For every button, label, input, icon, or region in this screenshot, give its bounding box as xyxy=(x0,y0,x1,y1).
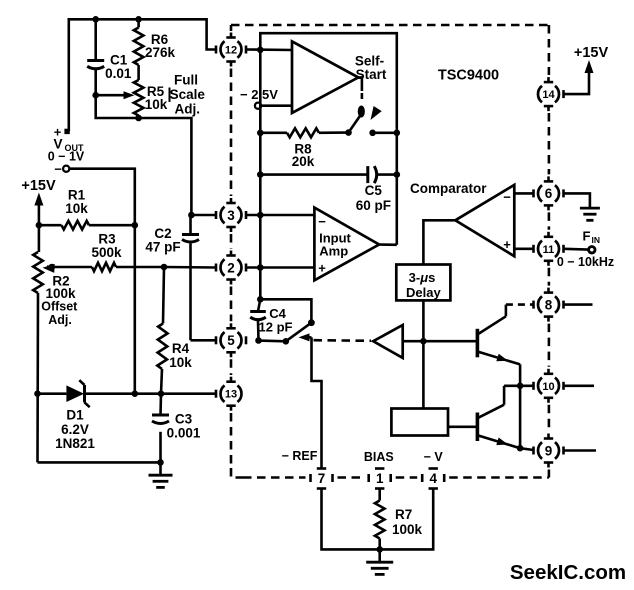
wire stub right of pin 8 xyxy=(564,303,593,306)
wiper wire of R5 xyxy=(96,91,135,99)
junction node +15V R1 R2 xyxy=(36,222,43,229)
ground below C3 xyxy=(149,462,173,487)
wire dashed switch to buffer xyxy=(314,339,372,342)
op-amp U2 input amp xyxy=(314,208,379,281)
IC box right edge seg5 xyxy=(548,324,551,367)
switch at pin 5 xyxy=(259,319,315,344)
power +15V left xyxy=(21,178,56,225)
ground below R7 xyxy=(366,549,393,574)
label -V xyxy=(424,450,444,464)
wire C4 junction branch to switch pivot xyxy=(260,299,311,321)
wire switch to rail xyxy=(373,132,397,135)
wire comparator out to delay xyxy=(423,220,455,264)
capacitor C1 xyxy=(87,19,132,95)
svg-text:1: 1 xyxy=(376,471,384,486)
IC box right edge seg2 xyxy=(548,113,551,174)
svg-text:10: 10 xyxy=(542,381,554,393)
wire stub right of pin 10 xyxy=(564,384,595,387)
IC box bottom edge seg2 xyxy=(338,476,364,479)
svg-text:12 pF: 12 pF xyxy=(259,320,293,335)
junction node R3 R4 pin2 xyxy=(161,264,168,271)
svg-text:R4: R4 xyxy=(172,341,190,356)
pin 1 xyxy=(369,469,391,489)
svg-text:276k: 276k xyxy=(145,45,176,60)
capacitor C2 xyxy=(145,215,199,340)
pin 9 xyxy=(534,434,564,468)
junction node C1 top xyxy=(92,16,99,23)
wire emitters to pin 9 xyxy=(520,448,533,450)
wire pin 7 down xyxy=(322,489,378,550)
svg-text:13: 13 xyxy=(225,389,237,401)
wire C2 bottom to pin 5 xyxy=(191,339,217,342)
svg-text:0.001: 0.001 xyxy=(167,426,201,441)
junction node C4 bottom pin5 row xyxy=(255,337,262,344)
label Vout xyxy=(48,137,85,164)
svg-text:5: 5 xyxy=(227,333,235,348)
svg-text:10k: 10k xyxy=(145,97,168,112)
pin 10 xyxy=(534,369,564,403)
pin 6 xyxy=(534,176,564,210)
svg-text:C3: C3 xyxy=(175,412,193,427)
junction node center xyxy=(420,338,427,345)
svg-text:IN: IN xyxy=(592,235,601,245)
svg-text:3-μs: 3-μs xyxy=(409,270,436,285)
comparator U3 xyxy=(455,185,514,256)
terminal Vout plus xyxy=(54,125,70,140)
IC box bottom edge seg1 xyxy=(243,476,306,479)
pin 12 xyxy=(216,33,246,67)
resistor R4 xyxy=(157,267,192,394)
junction node rail R8 left xyxy=(257,130,264,137)
IC box top edge xyxy=(231,24,549,27)
wire R1 node down to D1 row xyxy=(134,225,137,394)
pin 11 xyxy=(534,232,564,266)
svg-text:20k: 20k xyxy=(292,154,315,169)
junction node C1 bottom xyxy=(92,92,99,99)
pin 5 xyxy=(216,323,246,357)
svg-text:+: + xyxy=(318,261,326,276)
IC box bottom-left corner xyxy=(231,468,243,478)
svg-text:10k: 10k xyxy=(65,201,88,216)
IC box left edge seg1 xyxy=(230,25,233,31)
transistor Q1 xyxy=(477,305,520,365)
svg-text:+: + xyxy=(503,237,511,252)
zener diode D1 xyxy=(38,380,135,451)
junction node pin2 rail xyxy=(257,264,264,271)
capacitor C3 xyxy=(152,394,201,463)
junction node C4 top xyxy=(257,296,264,303)
wire D1 row to pin 13 xyxy=(135,392,216,395)
resistor R1 xyxy=(39,188,135,230)
junction node D1 row center xyxy=(132,390,139,397)
wire Q2 collector to pin 10 xyxy=(504,384,533,387)
wire R3 node to pin 2 xyxy=(164,266,216,269)
wire -2.5V to amp xyxy=(261,104,292,107)
wire rail top loop xyxy=(260,33,397,245)
terminal -2.5V xyxy=(240,87,278,109)
svg-text:+15V: +15V xyxy=(574,45,609,61)
wire pin 2 to amp plus xyxy=(246,266,314,269)
junction node C5 right xyxy=(394,171,401,178)
wire pin 14 to +15V xyxy=(564,72,590,94)
terminal Vout minus xyxy=(54,162,69,177)
svg-text:R7: R7 xyxy=(395,507,412,522)
one-shot box xyxy=(391,409,448,436)
wire R2 bottom rail xyxy=(38,461,161,464)
IC box left edge seg2 xyxy=(230,69,233,197)
svg-text:2: 2 xyxy=(227,260,235,275)
label Self-Start xyxy=(355,54,387,83)
IC box right edge seg7 xyxy=(548,470,551,478)
junction node C2 top pin3 row xyxy=(188,212,195,219)
svg-text:−: − xyxy=(503,190,511,205)
junction node R1 right xyxy=(132,222,139,229)
watermark SeekIC.com xyxy=(510,561,626,584)
capacitor C5 xyxy=(260,166,397,213)
wire center node to Q1 base xyxy=(423,340,476,343)
svg-text:0.01: 0.01 xyxy=(105,66,132,81)
junction node D1 anode xyxy=(34,390,41,397)
wire pin 4 down xyxy=(382,489,433,550)
wire R5 bottom rail to pin 3 row xyxy=(96,95,192,215)
IC box left edge seg5 xyxy=(230,359,233,375)
wire switch to pin 7 with jog xyxy=(312,337,322,468)
junction node pin3 rail xyxy=(257,212,264,219)
svg-text:− REF: − REF xyxy=(282,449,318,463)
label TSC9400 xyxy=(438,68,499,84)
label -REF xyxy=(282,449,318,463)
svg-text:8: 8 xyxy=(545,297,553,312)
buffer amp U4 xyxy=(373,325,403,358)
potentiometer R5 full-scale adj. xyxy=(134,65,168,118)
resistor R8 xyxy=(260,128,345,169)
wire pin 3 to amp minus xyxy=(246,214,314,217)
svg-text:SeekIC.com: SeekIC.com xyxy=(510,561,626,584)
svg-text:4: 4 xyxy=(429,471,437,486)
resistor R3 xyxy=(52,232,164,272)
resistor R7 xyxy=(375,489,423,550)
svg-text:Start: Start xyxy=(356,67,387,82)
pin 2 xyxy=(216,251,246,285)
pin 13 xyxy=(216,377,241,411)
power +15V right xyxy=(574,45,609,73)
svg-text:Scale: Scale xyxy=(170,87,206,102)
self-start switch xyxy=(345,77,382,136)
wire pin 6 to ground xyxy=(564,193,590,207)
IC box right edge seg4 xyxy=(548,268,551,286)
IC box right edge seg6 xyxy=(548,405,551,432)
IC box left edge seg6 xyxy=(230,413,233,468)
delay box 3-us xyxy=(396,265,450,301)
wire one-shot to Q2 base xyxy=(448,425,476,428)
pin 7 xyxy=(311,469,333,489)
wire stub right of pin 9 xyxy=(564,449,597,452)
junction node R7 bottom xyxy=(376,546,383,553)
svg-text:C5: C5 xyxy=(365,183,383,198)
junction node C3 bottom xyxy=(157,459,164,466)
svg-text:F: F xyxy=(583,229,591,244)
svg-text:9: 9 xyxy=(545,443,553,458)
pin 8 xyxy=(534,288,564,322)
svg-text:100k: 100k xyxy=(392,522,423,537)
wire top rail from Vout column to pin 12 xyxy=(69,19,216,131)
IC box bottom edge seg3 xyxy=(396,476,418,479)
wire amp output to rail xyxy=(379,243,397,246)
svg-text:60 pF: 60 pF xyxy=(356,198,391,213)
svg-text:TSC9400: TSC9400 xyxy=(438,68,499,84)
svg-text:−: − xyxy=(318,214,326,229)
pin 14 xyxy=(538,77,563,111)
junction node emitters pin 9 xyxy=(517,445,524,452)
wire pin3 row left xyxy=(191,214,216,217)
junction node R2 wiper xyxy=(49,264,56,271)
svg-text:Delay: Delay xyxy=(406,285,441,300)
svg-text:6.2V: 6.2V xyxy=(61,422,89,437)
svg-text:+15V: +15V xyxy=(21,178,56,194)
junction node R6 top xyxy=(135,16,142,23)
label Comparator xyxy=(410,181,487,196)
label BIAS xyxy=(364,450,394,464)
IC box left edge seg3 xyxy=(230,234,233,249)
op-amp U1 self-start xyxy=(292,41,358,113)
wire pin 12 to self-start amp xyxy=(246,48,292,51)
svg-text:Full: Full xyxy=(174,73,198,88)
svg-text:Adj.: Adj. xyxy=(48,313,72,327)
transistor Q2 xyxy=(477,386,520,448)
ground at pin 6 xyxy=(580,208,600,220)
wire comparator plus to pin 11 xyxy=(514,248,533,251)
wire comparator minus to pin 6 xyxy=(514,192,533,195)
pin 3 xyxy=(216,198,246,232)
svg-text:47 pF: 47 pF xyxy=(145,240,180,255)
resistor R6 xyxy=(134,19,176,65)
wire left internal rail xyxy=(259,50,262,299)
svg-text:−: − xyxy=(54,162,62,177)
wire minus terminal to R1 right node xyxy=(69,169,134,226)
wire delay to center node xyxy=(422,300,425,408)
svg-text:Comparator: Comparator xyxy=(410,181,487,196)
junction node R5 bottom xyxy=(135,115,142,122)
svg-text:12: 12 xyxy=(225,45,237,57)
junction node C5 left xyxy=(257,171,264,178)
IC box right edge seg3 xyxy=(548,212,551,229)
junction node rail R8 row xyxy=(394,130,401,137)
svg-text:0 − 10kHz: 0 − 10kHz xyxy=(557,255,614,269)
svg-text:Amp: Amp xyxy=(319,244,348,259)
wire pin 11 to Fin xyxy=(564,248,589,251)
svg-text:3: 3 xyxy=(227,208,235,223)
wire buffer to center node xyxy=(403,340,424,343)
IC box left edge seg4 xyxy=(230,287,233,322)
junction node emitter pin10 row xyxy=(517,383,524,390)
svg-text:Adj.: Adj. xyxy=(175,102,201,117)
potentiometer R2 offset adj. xyxy=(33,225,78,462)
svg-text:D1: D1 xyxy=(66,408,84,423)
svg-text:6: 6 xyxy=(545,186,553,201)
terminal Fin xyxy=(557,229,614,270)
svg-text:14: 14 xyxy=(542,89,555,101)
svg-text:− 2.5V: − 2.5V xyxy=(240,87,278,102)
svg-text:Offset: Offset xyxy=(41,300,78,314)
pin 4 xyxy=(422,469,444,489)
svg-text:500k: 500k xyxy=(91,245,122,260)
svg-text:10k: 10k xyxy=(169,355,192,370)
svg-text:BIAS: BIAS xyxy=(364,450,394,464)
label Full Scale Adj. xyxy=(170,73,206,117)
capacitor C4 xyxy=(250,299,292,340)
wire Q1 emitter down to pin 9 node xyxy=(519,364,522,448)
svg-text:1N821: 1N821 xyxy=(55,436,95,451)
IC box bottom edge seg4 xyxy=(449,476,549,479)
svg-text:− V: − V xyxy=(424,450,444,464)
junction node pin12 rail xyxy=(257,47,264,54)
svg-text:7: 7 xyxy=(318,471,326,486)
wire Q1 collector dashed to pin 8 xyxy=(506,303,534,306)
junction node C3 top xyxy=(158,390,165,397)
svg-text:11: 11 xyxy=(543,244,555,256)
IC box right edge seg1 xyxy=(548,25,551,75)
